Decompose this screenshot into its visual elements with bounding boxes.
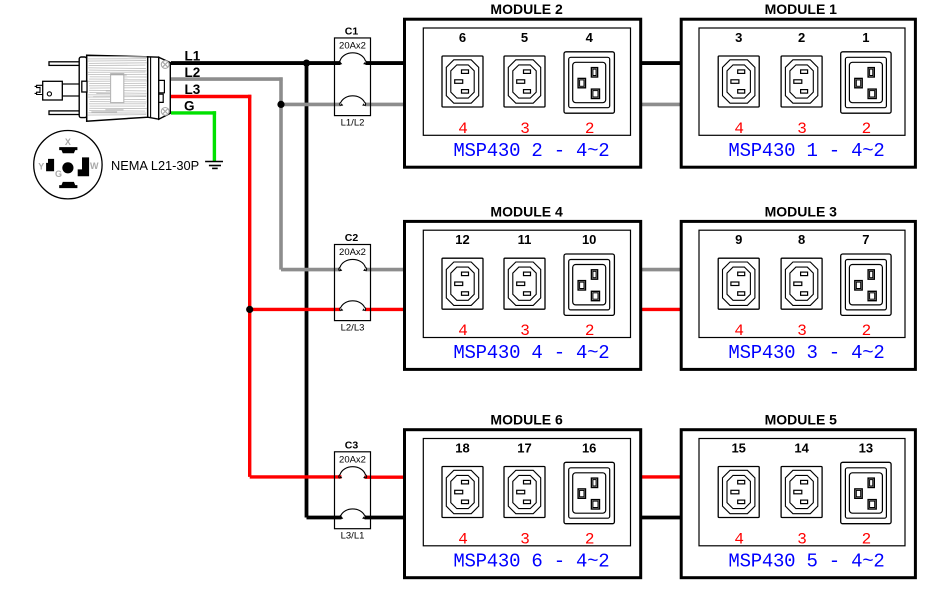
svg-text:3: 3 [797, 120, 807, 138]
svg-text:MODULE 2: MODULE 2 [490, 1, 563, 17]
svg-text:C2: C2 [345, 232, 359, 244]
outlet 1 C19 (IEC C19 receptacle) [841, 52, 891, 113]
outlet 14 C13 (IEC C13 receptacle) [781, 467, 822, 518]
plug label patch [111, 74, 124, 103]
circuit breaker C3 (20Ax2) [335, 452, 371, 529]
svg-text:C3: C3 [345, 439, 359, 451]
svg-text:10: 10 [582, 232, 596, 247]
face slot W (right) [78, 157, 89, 176]
svg-text:MSP430 4 - 4~2: MSP430 4 - 4~2 [453, 342, 609, 364]
svg-text:L1: L1 [185, 49, 201, 64]
outlet 16 C19 (IEC C19 receptacle) [564, 462, 614, 523]
svg-text:13: 13 [859, 441, 873, 456]
plug blade bottom [49, 111, 87, 115]
wire L3 red: plug to corner [171, 95, 251, 98]
svg-text:MSP430 5 - 4~2: MSP430 5 - 4~2 [728, 551, 884, 573]
svg-text:4: 4 [586, 30, 594, 45]
svg-text:Y: Y [38, 162, 44, 172]
junction on L3 red at C2 branch [246, 306, 253, 313]
svg-text:6: 6 [459, 30, 466, 45]
svg-text:L1/L2: L1/L2 [341, 117, 365, 128]
wire gray: MODULE 2 to MODULE 1 [640, 103, 681, 107]
svg-text:MSP430 2 - 4~2: MSP430 2 - 4~2 [453, 140, 609, 162]
outlet 11 C13 (IEC C13 receptacle) [504, 258, 545, 309]
ground symbol (earth) [205, 162, 223, 169]
svg-text:3: 3 [520, 530, 530, 548]
NEMA L21-30P plug (side view) [35, 55, 148, 121]
svg-text:16: 16 [582, 441, 596, 456]
face center ground hole [62, 162, 73, 173]
svg-text:L3/L1: L3/L1 [341, 530, 365, 541]
svg-text:15: 15 [731, 441, 745, 456]
outlet 6 C13 (IEC C13 receptacle) [442, 56, 483, 107]
plug face band [148, 57, 159, 119]
svg-text:G: G [184, 98, 195, 113]
label MODULE 6 title [490, 412, 563, 428]
wire L1 black: plug to breaker C1 top pole [171, 61, 341, 65]
module box MODULE 3 [681, 221, 915, 369]
svg-text:4: 4 [458, 322, 468, 340]
junction on L2 gray at C1 branch [277, 101, 284, 108]
plug body [87, 55, 148, 121]
svg-text:4: 4 [734, 120, 744, 138]
svg-text:G: G [55, 169, 62, 179]
svg-text:MSP430 6 - 4~2: MSP430 6 - 4~2 [453, 551, 609, 573]
svg-text:8: 8 [798, 232, 805, 247]
outlet 17 C13 (IEC C13 receptacle) [504, 467, 545, 518]
wire L1 black: C3 bottom pole branch horizontal [307, 516, 342, 520]
wire black: MODULE 2 to MODULE 1 [640, 61, 681, 65]
svg-text:17: 17 [517, 441, 531, 456]
outlet 7 C19 (IEC C19 receptacle) [841, 254, 891, 315]
wire black: C3 output to MODULE 6 [365, 516, 406, 520]
svg-text:L2: L2 [185, 65, 201, 80]
svg-text:3: 3 [735, 30, 742, 45]
svg-text:2: 2 [585, 120, 595, 138]
svg-text:MODULE 4: MODULE 4 [490, 203, 563, 219]
wire gray: MODULE 4 to MODULE 3 [640, 268, 681, 272]
outlet 10 C19 (IEC C19 receptacle) [564, 254, 614, 315]
svg-text:18: 18 [455, 441, 469, 456]
svg-text:L2/L3: L2/L3 [341, 322, 365, 333]
label MODULE 1 title [765, 1, 838, 17]
svg-text:2: 2 [798, 30, 805, 45]
wire L2 gray vertical x=281 [279, 77, 283, 269]
svg-text:14: 14 [794, 441, 809, 456]
wire gray: C1 output to MODULE 2 [366, 103, 406, 107]
wire gray: to breaker C2 top pole [281, 268, 341, 272]
plug screw bottom [161, 108, 169, 116]
svg-text:4: 4 [734, 530, 744, 548]
wire red: C3 output to MODULE 6 [365, 476, 405, 479]
svg-text:MODULE 6: MODULE 6 [490, 412, 563, 428]
wire gray: branch to breaker C1 bottom pole [281, 103, 341, 107]
module box MODULE 6 [405, 430, 641, 578]
plug body hatching [88, 57, 147, 116]
module box MODULE 4 [405, 221, 641, 369]
svg-text:X: X [65, 137, 71, 147]
NEMA L21-30P receptacle face view [34, 131, 102, 199]
svg-text:20Ax2: 20Ax2 [339, 454, 366, 465]
svg-text:W: W [90, 161, 99, 171]
wire red: branch to breaker C2 bottom pole [250, 308, 341, 311]
circuit breaker C2 (20Ax2) [335, 245, 371, 321]
plug rear collar [79, 57, 87, 118]
svg-text:11: 11 [518, 232, 532, 247]
plug nose [159, 57, 171, 119]
svg-text:2: 2 [585, 530, 595, 548]
wire red: C2 output to MODULE 4 [366, 308, 406, 311]
label MODULE 4 title [490, 203, 563, 219]
outlet 15 C13 (IEC C13 receptacle) [718, 467, 759, 518]
svg-text:4: 4 [458, 530, 468, 548]
label MODULE 3 title [765, 203, 838, 219]
label MODULE 5 title [765, 412, 838, 428]
wire L2 gray: plug to corner [171, 77, 283, 81]
face slot X (top) [59, 147, 77, 153]
junction on L1 at black vertical [303, 59, 310, 66]
outlet 2 C13 (IEC C13 receptacle) [781, 56, 822, 107]
svg-text:L3: L3 [185, 82, 201, 97]
outlet 8 C13 (IEC C13 receptacle) [781, 258, 822, 309]
svg-text:20Ax2: 20Ax2 [339, 247, 366, 258]
svg-text:3: 3 [520, 322, 530, 340]
svg-text:2: 2 [585, 322, 595, 340]
wire red: MODULE 6 to MODULE 5 [640, 475, 681, 478]
svg-text:2: 2 [862, 120, 872, 138]
face slot Y (left) [46, 159, 54, 171]
svg-text:MODULE 1: MODULE 1 [765, 1, 838, 17]
outlet 18 C13 (IEC C13 receptacle) [442, 467, 483, 518]
svg-text:12: 12 [455, 232, 469, 247]
svg-text:4: 4 [734, 322, 744, 340]
outlet 4 C19 (IEC C19 receptacle) [564, 52, 614, 113]
svg-text:3: 3 [520, 120, 530, 138]
outlet 3 C13 (IEC C13 receptacle) [718, 56, 759, 107]
outlet 5 C13 (IEC C13 receptacle) [504, 56, 545, 107]
wire black: C1 output to MODULE 2 [366, 61, 406, 65]
svg-text:9: 9 [735, 232, 742, 247]
module box MODULE 2 [405, 19, 641, 167]
circuit breaker C1 (20Ax2) [335, 38, 371, 116]
svg-text:MODULE 5: MODULE 5 [765, 412, 838, 428]
module box MODULE 5 [681, 430, 915, 578]
wire L1 black vertical feeder x=306.5 [305, 63, 309, 517]
svg-text:4: 4 [458, 120, 468, 138]
svg-text:NEMA L21-30P: NEMA L21-30P [111, 158, 199, 173]
svg-text:2: 2 [862, 530, 872, 548]
plug ground pin [62, 84, 84, 96]
svg-text:C1: C1 [345, 26, 359, 38]
plug latch notches [159, 80, 164, 102]
wire G green vertical to ground [213, 111, 216, 161]
plug blade top [49, 62, 87, 66]
svg-text:MODULE 3: MODULE 3 [765, 203, 838, 219]
plug cord-grip tab [82, 81, 87, 92]
wire black: MODULE 6 to MODULE 5 [640, 516, 681, 520]
svg-text:3: 3 [797, 322, 807, 340]
outlet 9 C13 (IEC C13 receptacle) [718, 258, 759, 309]
svg-text:3: 3 [797, 530, 807, 548]
outlet 12 C13 (IEC C13 receptacle) [442, 258, 483, 309]
plug screw top [161, 61, 169, 69]
label MODULE 2 title [490, 1, 563, 17]
svg-text:MSP430 1 - 4~2: MSP430 1 - 4~2 [728, 140, 884, 162]
wire red: MODULE 4 to MODULE 3 [640, 308, 681, 311]
svg-text:1: 1 [862, 30, 869, 45]
wire L3 red vertical x=249.7 [248, 95, 251, 477]
svg-text:5: 5 [521, 30, 528, 45]
svg-text:MSP430 3 - 4~2: MSP430 3 - 4~2 [728, 342, 884, 364]
svg-text:7: 7 [862, 232, 869, 247]
wire gray: C2 output to MODULE 4 [366, 268, 406, 272]
outlet 13 C19 (IEC C19 receptacle) [841, 462, 891, 523]
svg-text:2: 2 [862, 322, 872, 340]
module box MODULE 1 [681, 19, 915, 167]
face slot (bottom) [59, 182, 77, 188]
wire red: to breaker C3 top pole [250, 475, 342, 478]
svg-text:20Ax2: 20Ax2 [339, 41, 366, 52]
wire G green: plug to corner [171, 111, 216, 114]
